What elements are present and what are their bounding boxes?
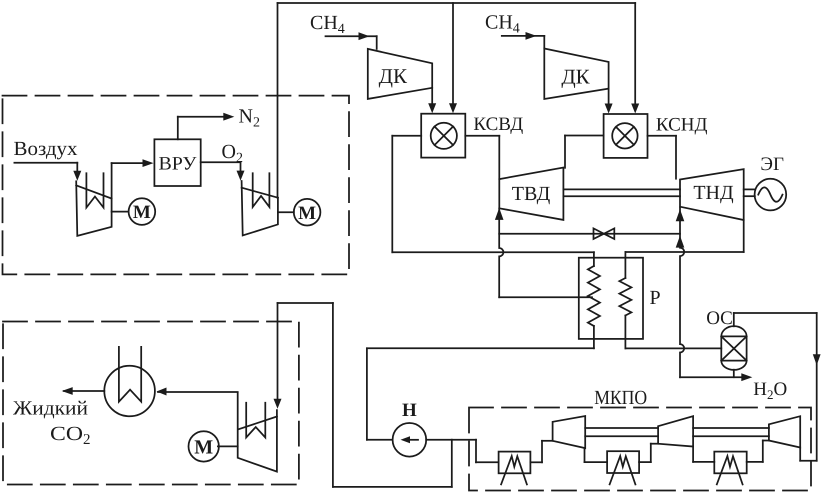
wire pump to regenerator [367,439,393,441]
separator OS vessel [721,326,746,370]
mixer symbol in KSVD [431,123,457,149]
label N2 [239,106,260,131]
wire O2 line [201,162,245,180]
condenser KD [104,347,155,416]
label N pump [402,400,417,421]
cooler AO1 [499,452,531,485]
wire exhaust return right segment [625,251,743,253]
label TVD [512,183,551,205]
label CH4 no.2 [485,12,520,37]
svg-text:CH4: CH4 [310,12,345,37]
combustor KSND box [604,114,648,158]
svg-text:КСНД: КСНД [656,115,708,136]
wire K6 to M2 [278,211,294,213]
shaft K1-K2 [585,428,658,436]
generator EG [755,179,787,211]
pump N [393,423,427,457]
svg-text:ДК: ДК [561,65,590,89]
compressor K4 with intercooler [238,393,277,471]
wire drop into KSND mixer [631,3,639,114]
shaft TVD-TND [563,189,680,196]
wire pump suction branch [333,440,452,487]
compressor K6 oxygen with intercooler [242,173,278,235]
label MKPO [594,387,647,409]
shaft TND-EG [744,189,755,196]
mixer symbol in KSND [612,123,637,148]
regenerator left coil [588,252,600,348]
wire liquid CO2 out [62,387,105,395]
svg-text:М: М [298,203,316,224]
svg-text:Р: Р [650,287,661,309]
label EG [760,154,784,175]
shaft K2-K3 [693,428,769,436]
label O2 [222,141,243,166]
svg-text:КСВД: КСВД [473,114,523,135]
wire K4 to condenser [157,388,238,396]
label liquid CO2 [13,398,91,449]
svg-text:ТНД: ТНД [693,182,734,204]
wire riser to KSVD [391,136,393,252]
compressor K2 [658,416,693,446]
label R [650,287,661,309]
wire TND cooling riser [676,208,685,378]
motor M2 [294,199,321,226]
wire gas down to MKPO [800,313,820,461]
wire DK2 outlet to KSND [605,89,613,114]
wire N2 vent [178,113,235,140]
compressor DK2 [544,49,608,100]
wire top distribution line [278,2,636,4]
dashed boundary CO2 liquefaction block [3,322,299,485]
wire air feed [14,163,81,181]
dashed boundary ASU block [3,96,350,275]
wire CH4 feed 2 [502,32,545,49]
svg-text:N2: N2 [239,106,260,131]
svg-text:МКПО: МКПО [594,387,647,409]
wire KSVD to TVD [465,136,499,179]
turbine TND [680,169,744,220]
svg-text:CH4: CH4 [485,12,520,37]
wire exhaust return left segment [392,251,594,253]
svg-text:Н: Н [402,400,417,421]
wire TND exhaust down [743,220,745,252]
wire O2/CO2 riser left drop [277,3,279,198]
cooler AO3 [714,452,746,485]
valve [594,228,615,239]
svg-text:ДК: ДК [379,64,408,88]
wire AO3 to K2 [693,447,714,462]
wire H2O drain line [680,373,752,381]
svg-text:ОС: ОС [706,308,733,329]
wire OS bottom drain [733,370,735,378]
wire cooled exhaust to OS [625,347,721,349]
combustor KSVD box [421,114,465,158]
unit VRU box [154,139,200,186]
svg-text:М: М [133,202,151,223]
svg-text:ЭГ: ЭГ [760,154,784,175]
wire K3 to AO3 [747,441,769,462]
label KSND [656,115,708,136]
label H2O [753,379,787,402]
wire K1 to AO1 [530,441,552,463]
wire capture drop to K4 [274,303,282,409]
wire K5 to M1 [112,211,129,213]
svg-text:ВРУ: ВРУ [159,153,198,174]
wire capture riser [332,303,334,487]
wire capture top run [278,302,333,304]
label OS [706,308,733,329]
svg-text:Воздух: Воздух [14,138,78,160]
wire regenerator mid tap [499,296,592,298]
svg-text:H2O: H2O [753,379,787,402]
label TND [693,182,734,204]
regenerator R box [579,258,643,339]
svg-text:Жидкий: Жидкий [13,398,88,420]
turbine TVD [499,168,563,220]
wire AO2 to K1 [585,448,608,462]
compressor K1 [553,416,586,448]
wire OS top gas line [734,313,817,326]
motor M1 [129,198,156,225]
compressor K5 air with intercooler [76,173,111,236]
wire TVD exhaust to KSND [565,136,604,168]
wire M3 to K4 [218,445,238,447]
wire K5 to VRU [112,159,154,198]
motor M3 [189,431,219,461]
compressor DK1 [368,49,432,99]
label DK1 [379,64,408,88]
wire AO1 to pump [426,440,498,463]
cooler AO2 [607,451,639,484]
wire K2 to AO2 [639,444,658,462]
wire KSND to TND [648,136,677,179]
svg-text:М: М [194,437,213,459]
svg-text:ТВД: ТВД [512,183,551,205]
svg-text:O2: O2 [222,141,243,166]
wire regenerated CO2 into KSVD [392,135,421,137]
wire pump discharge riser [367,348,594,440]
dashed boundary MKPO block [469,408,811,491]
label CH4 no.1 [310,12,345,37]
svg-text:СО2: СО2 [50,423,91,448]
label DK2 [561,65,590,89]
valve line TVD-TND [499,233,680,235]
regenerator right coil [619,252,631,348]
label VRU [159,153,198,174]
label air [14,138,78,160]
label KSVD [473,114,523,135]
wire drop into KSVD mixer [449,3,457,113]
wire CH4 feed 1 [326,32,377,49]
compressor K3 [769,416,800,447]
wire DK1 outlet to KSVD [428,88,436,113]
wire TVD cooling riser [495,208,504,297]
